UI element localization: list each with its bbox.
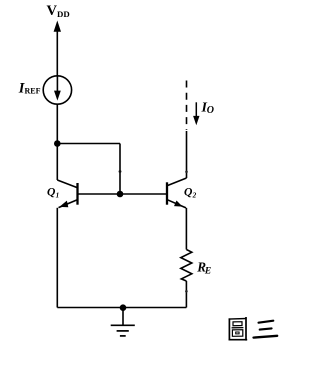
wire: dashed output stub — [186, 81, 188, 131]
svg-text:O: O — [207, 105, 214, 116]
wire: base rail Q1 to Q2 — [78, 193, 167, 195]
label 三 (three) drawn as strokes — [254, 321, 278, 338]
wire: Q1 emitter down to bottom rail — [56, 208, 58, 308]
wire: Q2 emitter to resistor — [185, 208, 187, 250]
transistor Q1 (NPN, mirrored: base bar right, emitter lower-left with arrow) — [57, 180, 77, 208]
joint tick below resistor — [185, 290, 188, 293]
joint tick on tie wire — [119, 170, 122, 173]
svg-text:2: 2 — [192, 191, 197, 199]
ground — [111, 308, 135, 336]
wire: bottom rail — [57, 307, 186, 309]
current source I_REF (circle with down arrow) — [43, 76, 71, 104]
label 圖 (figure) drawn as strokes — [229, 317, 248, 341]
wire: current source to Q1 collector — [56, 104, 58, 180]
wire: resistor to bottom rail — [185, 281, 187, 308]
wire: solid collector lead of Q2 — [186, 131, 188, 178]
transistor Q2 (NPN: base bar left, emitter lower-right with arrow) — [167, 178, 187, 208]
joint tick on collector lead — [185, 171, 188, 174]
svg-text:E: E — [204, 266, 211, 276]
resistor R_E (zigzag) — [181, 250, 192, 282]
node C (ground junction dot) — [120, 304, 127, 311]
svg-text:1: 1 — [56, 191, 60, 199]
node A (junction dot, collector of Q1) — [54, 140, 61, 147]
svg-text:REF: REF — [25, 86, 41, 95]
wire: vertical tie down to base rail — [119, 144, 121, 195]
arrow I_O (down) — [193, 102, 199, 125]
arrow to VDD (up) — [54, 21, 61, 77]
svg-text:VDD: VDD — [47, 3, 70, 19]
wire: top horizontal (collector to base tie) — [57, 143, 120, 145]
node B (junction dot on base rail) — [117, 191, 124, 198]
